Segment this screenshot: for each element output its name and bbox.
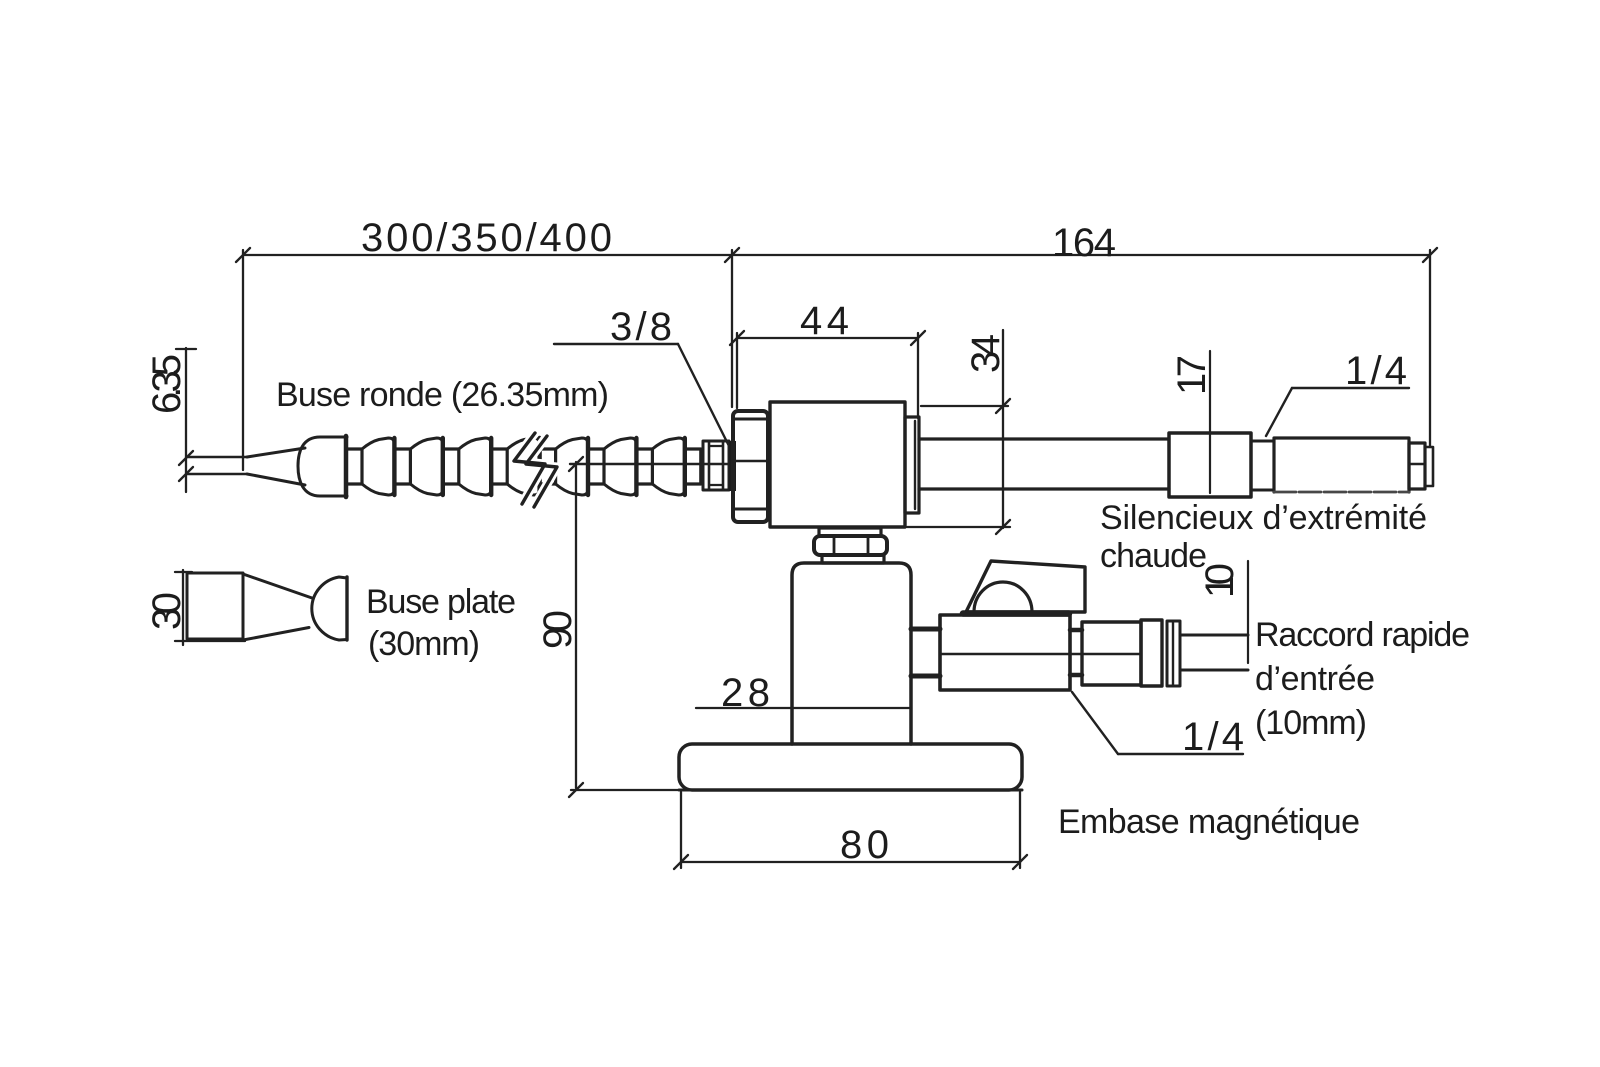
dimension 44 xyxy=(730,331,925,418)
dimension 30 xyxy=(175,570,245,645)
svg-text:Buse ronde (26.35mm): Buse ronde (26.35mm) xyxy=(276,376,609,414)
magnetic base xyxy=(679,744,1022,790)
hose centerline xyxy=(570,463,733,465)
svg-text:Silencieux d’extrémité: Silencieux d’extrémité xyxy=(1100,499,1427,537)
svg-text:(10mm): (10mm) xyxy=(1255,704,1367,742)
svg-text:17: 17 xyxy=(1170,355,1214,395)
hose end connector xyxy=(703,441,729,490)
dimension 80 xyxy=(674,792,1027,869)
muffler body xyxy=(1274,438,1409,492)
dimension 6.35 (nozzle tip) xyxy=(176,348,196,492)
silencer block 17 xyxy=(1169,433,1251,497)
svg-text:Buse plate: Buse plate xyxy=(366,583,516,621)
svg-text:44: 44 xyxy=(800,299,855,343)
valve to QC neck xyxy=(1070,628,1082,633)
svg-text:chaude: chaude xyxy=(1100,537,1207,575)
svg-text:164: 164 xyxy=(1052,221,1116,265)
hose segments xyxy=(346,438,701,495)
flat nozzle (buse plate) xyxy=(187,573,347,640)
dimension 300/350/400 xyxy=(236,248,739,470)
valve ball dome xyxy=(974,582,1032,612)
valve handle xyxy=(966,561,1085,612)
svg-text:3/8: 3/8 xyxy=(610,305,672,349)
label 1/4 bottom with leader xyxy=(1072,692,1118,754)
svg-text:Raccord rapide: Raccord rapide xyxy=(1255,616,1470,654)
inlet tube 10mm xyxy=(1180,634,1248,637)
svg-text:Embase magnétique: Embase magnétique xyxy=(1058,803,1360,841)
hose break symbol xyxy=(514,433,557,507)
svg-text:d’entrée: d’entrée xyxy=(1255,660,1375,698)
svg-text:(30mm): (30mm) xyxy=(368,625,480,663)
svg-text:1/4: 1/4 xyxy=(1182,715,1244,759)
svg-text:300/350/400: 300/350/400 xyxy=(361,216,612,260)
svg-text:90: 90 xyxy=(536,610,580,649)
svg-text:10: 10 xyxy=(1198,563,1242,598)
hose first ball xyxy=(298,437,347,496)
nozzle tip tube xyxy=(187,456,247,459)
muffler end cap xyxy=(1409,443,1425,489)
valve body xyxy=(940,615,1070,690)
svg-text:6.35: 6.35 xyxy=(145,354,189,414)
column xyxy=(792,563,911,744)
body flange xyxy=(905,417,919,513)
dimension 164 xyxy=(732,248,1437,447)
dimension 10 xyxy=(1247,561,1249,663)
svg-text:34: 34 xyxy=(964,334,1008,373)
dimension 90 xyxy=(569,457,682,797)
dimension 34 xyxy=(907,330,1010,534)
svg-text:28: 28 xyxy=(721,671,773,715)
dimension 17 xyxy=(1209,351,1211,493)
main body xyxy=(770,402,905,527)
svg-text:80: 80 xyxy=(840,823,892,867)
nozzle cone xyxy=(247,448,305,457)
hex nut 3/8 xyxy=(729,411,768,522)
outlet tube xyxy=(919,437,1169,440)
nipple between silencer and muffler xyxy=(1251,440,1274,443)
muffler end nub xyxy=(1425,447,1433,486)
quick connect collar xyxy=(1167,621,1180,686)
valve inlet stubs xyxy=(911,627,940,632)
dimension 28 xyxy=(696,707,911,709)
quick connect body xyxy=(1082,622,1141,685)
svg-text:1/4: 1/4 xyxy=(1345,349,1407,393)
svg-text:30: 30 xyxy=(145,592,189,630)
stud and nut under body xyxy=(814,528,887,563)
